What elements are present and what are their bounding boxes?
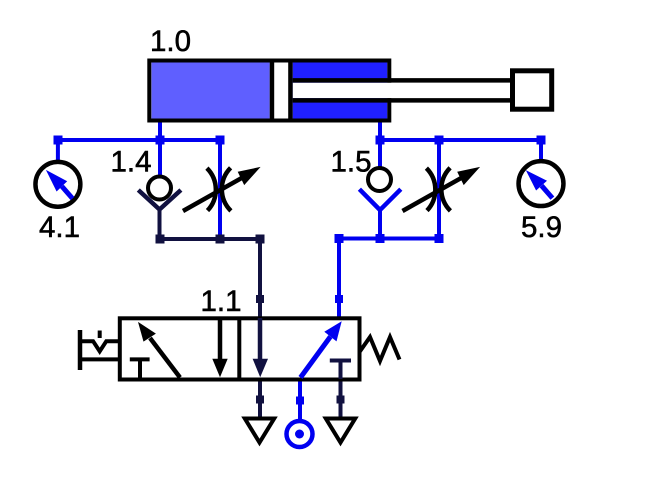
junction at cylinder left port tee bbox=[156, 136, 165, 145]
wire: gauge 5.9 drop bbox=[539, 140, 543, 161]
svg-text:1.5: 1.5 bbox=[331, 145, 372, 178]
throttle 1.4 adjust arrow bbox=[183, 167, 261, 211]
junction at cylinder right port tee bbox=[376, 136, 385, 145]
cylinder 1.0 left chamber fill bbox=[152, 63, 270, 119]
svg-text:1.4: 1.4 bbox=[111, 145, 152, 178]
throttle 1.4 arcs bbox=[207, 168, 231, 211]
exhaust S triangle bbox=[326, 419, 355, 443]
cylinder 1.0 right chamber fill bbox=[293, 63, 388, 119]
exhaust R triangle bbox=[245, 419, 274, 443]
valve 1.1 left box blocked port T bbox=[130, 359, 150, 377]
connector on port B riser bbox=[335, 295, 343, 303]
valve 1.1 right box exhaust path arrow bbox=[253, 318, 268, 377]
svg-text:4.1: 4.1 bbox=[39, 211, 80, 244]
wire: cylinder left port stub bbox=[158, 119, 162, 142]
wire: left manifold horizontal bbox=[56, 138, 222, 142]
valve 1.1 right box pressure arrow bbox=[301, 321, 342, 377]
valve 1.1 left box down arrow bbox=[212, 318, 227, 377]
valve 1.1 return spring bbox=[360, 337, 400, 361]
connector on source line bbox=[296, 397, 304, 405]
cylinder 1.0 rod end block bbox=[513, 71, 552, 109]
wire: cylinder right port stub bbox=[378, 119, 382, 142]
wire: gauge 4.1 drop bbox=[56, 140, 60, 162]
gauge 5.9 body bbox=[519, 161, 564, 206]
wire: throttle 1.5 branch bbox=[437, 140, 441, 240]
connector on exhaust R line bbox=[256, 396, 264, 404]
check valve 1.4 ball bbox=[148, 177, 171, 200]
wire: bottom right horizontal bbox=[337, 237, 441, 241]
wire: exhaust S line bbox=[339, 379, 343, 419]
throttle 1.5 arcs bbox=[426, 168, 450, 211]
valve 1.1 manual actuator bbox=[78, 330, 120, 370]
svg-text:1.0: 1.0 bbox=[150, 25, 191, 58]
junction at bottom right corner bbox=[335, 234, 344, 243]
svg-text:5.9: 5.9 bbox=[521, 211, 562, 244]
check valve 1.5 seat bbox=[359, 189, 400, 240]
wire: pressure source line bbox=[298, 379, 302, 419]
valve 1.1 left box flow arrow bbox=[138, 322, 180, 378]
connector on exhaust S line bbox=[337, 396, 345, 404]
check valve 1.4 seat bbox=[138, 190, 181, 240]
junction at throttle 1.4 tee bbox=[216, 136, 225, 145]
wire: throttle 1.4 branch bbox=[218, 140, 222, 240]
cylinder 1.0 piston rod bbox=[293, 80, 514, 100]
throttle 1.5 adjust arrow bbox=[403, 167, 481, 211]
svg-text:1.1: 1.1 bbox=[201, 285, 242, 318]
valve 1.1 right box blocked port T bbox=[330, 361, 351, 380]
cylinder 1.0 body outline bbox=[149, 61, 389, 121]
wire: check valve 1.5 feed bbox=[378, 140, 382, 167]
gauge 4.1 body bbox=[35, 162, 80, 207]
junction at bottom left corner bbox=[256, 235, 265, 244]
wire: valve port B riser bbox=[337, 239, 341, 319]
gauge 5.9 needle bbox=[526, 170, 553, 198]
wire: check valve 1.4 feed bbox=[158, 140, 162, 176]
junction at throttle 1.4 bottom bbox=[216, 235, 225, 244]
junction at check 1.5 bottom bbox=[376, 234, 385, 243]
wire: right manifold horizontal bbox=[378, 138, 543, 142]
connector on port A riser bbox=[256, 295, 264, 303]
pressure source bbox=[287, 421, 313, 447]
junction at gauge 4.1 tee bbox=[54, 136, 63, 145]
junction at throttle 1.5 bottom bbox=[435, 234, 444, 243]
valve 1.1 body bbox=[120, 318, 360, 379]
check valve 1.5 ball bbox=[368, 168, 391, 191]
junction at gauge 5.9 tee bbox=[537, 136, 546, 145]
cylinder 1.0 piston bbox=[270, 59, 293, 123]
wire: bottom left horizontal bbox=[158, 237, 263, 241]
junction at throttle 1.5 tee bbox=[435, 136, 444, 145]
wire: valve port A riser and exhaust R line bbox=[258, 239, 262, 419]
junction at check 1.4 bottom bbox=[156, 235, 165, 244]
gauge 4.1 needle bbox=[46, 170, 73, 199]
